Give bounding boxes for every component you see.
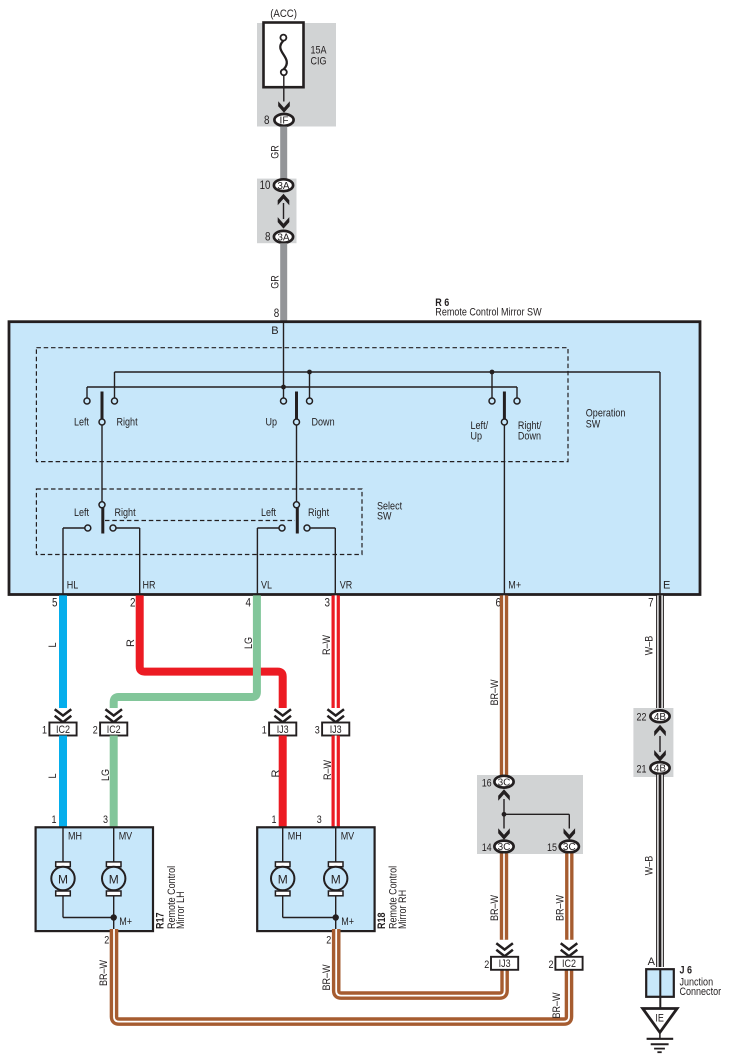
svg-text:3: 3 [317,814,322,826]
svg-text:3: 3 [315,725,320,737]
svg-text:8: 8 [264,113,270,127]
svg-text:Left: Left [74,507,89,519]
svg-text:IJ3: IJ3 [277,724,289,736]
svg-text:BR–W: BR–W [489,894,501,921]
svg-text:SW: SW [586,419,601,431]
svg-text:L: L [47,774,59,779]
svg-text:Remote Control Mirror SW: Remote Control Mirror SW [435,307,542,319]
svg-text:8: 8 [274,306,280,320]
svg-text:3A: 3A [277,232,290,243]
svg-text:14: 14 [482,842,492,854]
svg-text:BR–W: BR–W [321,964,333,991]
svg-text:W–B: W–B [644,856,656,876]
svg-text:4B: 4B [654,764,667,775]
svg-text:3: 3 [325,596,331,610]
svg-text:R: R [270,769,282,777]
svg-text:8: 8 [265,230,271,244]
svg-text:2: 2 [130,596,136,610]
svg-text:4B: 4B [654,712,667,723]
svg-text:HL: HL [67,579,79,591]
svg-text:M+: M+ [119,916,132,928]
svg-text:M: M [109,872,119,886]
svg-text:R: R [125,639,137,647]
svg-text:BR–W: BR–W [489,679,501,706]
svg-text:3C: 3C [498,777,511,788]
svg-text:MV: MV [119,831,133,843]
svg-text:M+: M+ [508,579,521,591]
svg-text:BR–W: BR–W [551,992,563,1019]
svg-text:B: B [271,325,278,337]
svg-text:3: 3 [103,814,108,826]
svg-text:M+: M+ [341,916,354,928]
svg-text:LG: LG [243,637,255,649]
svg-text:Up: Up [471,431,483,443]
svg-text:GR: GR [270,145,282,159]
svg-text:2: 2 [93,725,98,737]
svg-text:4: 4 [246,596,252,610]
svg-text:M: M [58,872,68,886]
svg-text:BR–W: BR–W [98,959,110,986]
svg-text:R–W: R–W [321,635,333,655]
svg-text:2: 2 [549,959,554,971]
svg-text:1: 1 [52,814,57,826]
svg-text:3C: 3C [563,842,576,853]
svg-text:VR: VR [340,579,353,591]
svg-text:R17: R17 [154,913,166,930]
svg-text:7: 7 [648,596,654,610]
svg-text:GR: GR [270,275,282,289]
svg-text:Down: Down [312,417,335,429]
svg-text:1: 1 [42,725,47,737]
svg-text:SW: SW [377,511,392,523]
svg-text:Right: Right [308,507,329,519]
svg-text:Right: Right [115,507,136,519]
svg-text:21: 21 [637,763,647,775]
svg-text:BR–W: BR–W [554,894,566,921]
svg-text:2: 2 [484,959,489,971]
svg-text:R18: R18 [376,913,388,930]
svg-text:(ACC): (ACC) [270,8,297,20]
svg-text:M: M [331,872,341,886]
svg-text:MV: MV [341,831,355,843]
svg-text:10: 10 [260,178,271,192]
svg-text:1: 1 [262,725,267,737]
svg-text:Right: Right [117,417,138,429]
svg-text:Mirror RH: Mirror RH [397,890,409,929]
svg-text:3C: 3C [498,842,511,853]
svg-text:Left: Left [261,507,276,519]
svg-text:2: 2 [326,935,331,947]
svg-text:IC2: IC2 [56,724,70,736]
svg-text:L: L [47,643,59,648]
svg-text:A: A [648,956,656,968]
svg-text:M: M [278,872,288,886]
svg-text:Left: Left [74,417,89,429]
svg-text:1: 1 [272,814,277,826]
svg-text:15: 15 [547,842,557,854]
svg-text:MH: MH [68,831,82,843]
svg-text:E: E [663,579,670,591]
svg-text:W–B: W–B [644,636,656,656]
svg-text:IE: IE [655,1013,664,1025]
svg-text:Up: Up [266,417,278,429]
svg-text:3A: 3A [277,181,290,192]
svg-text:IJ3: IJ3 [499,958,511,970]
svg-text:Down: Down [518,431,541,443]
svg-text:VL: VL [261,579,272,591]
svg-text:5: 5 [52,596,58,610]
svg-text:Connector: Connector [680,986,722,998]
svg-text:22: 22 [637,712,647,724]
svg-text:IC2: IC2 [107,724,121,736]
svg-text:IJ3: IJ3 [330,724,342,736]
svg-text:2: 2 [104,935,109,947]
svg-text:Mirror LH: Mirror LH [175,891,187,929]
svg-text:J 6: J 6 [680,965,693,977]
svg-text:LG: LG [100,769,112,781]
svg-text:R–W: R–W [322,760,334,780]
svg-text:MH: MH [288,831,302,843]
svg-text:IF: IF [280,116,289,127]
svg-text:HR: HR [143,579,156,591]
svg-text:IC2: IC2 [562,958,576,970]
svg-text:16: 16 [482,777,492,789]
svg-text:CIG: CIG [311,56,327,68]
